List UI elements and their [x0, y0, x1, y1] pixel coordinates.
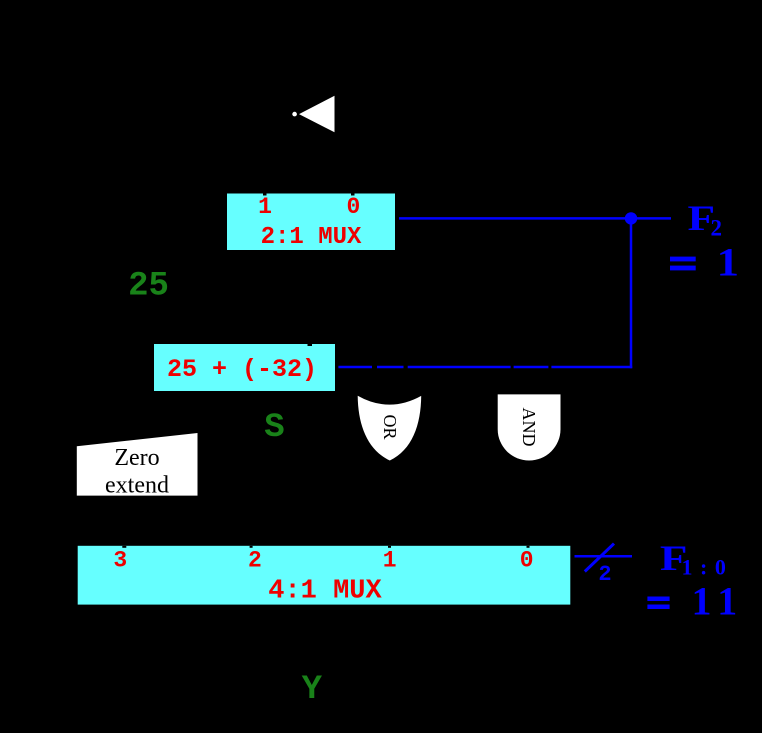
4:1 MUX body [78, 546, 571, 605]
svg-text:0: 0 [520, 548, 534, 574]
wire stub notch on 2:1 MUX top, input 1 [263, 194, 267, 196]
zero extend block [77, 433, 198, 496]
wire stub notch on 2:1 MUX top, input 0 [351, 194, 355, 196]
svg-text:AND: AND [519, 408, 539, 447]
wire: 4:1 MUX output [575, 555, 633, 558]
2:1 MUX body [227, 194, 395, 251]
wire: dashed run from adder box to corner [338, 366, 632, 369]
svg-text:Y: Y [302, 671, 323, 709]
svg-text:extend: extend [105, 472, 169, 498]
wire: junction down to corner [630, 218, 633, 368]
svg-text:2: 2 [248, 548, 262, 574]
bus width slash [585, 544, 614, 572]
svg-text:1: 1 [717, 241, 739, 285]
junction node [625, 212, 637, 224]
svg-text:1:0: 1:0 [682, 555, 734, 580]
svg-text:1: 1 [383, 548, 397, 574]
svg-text:25 + (-32): 25 + (-32) [167, 355, 317, 384]
wire stub notch on 4:1 MUX top, input 3 [122, 546, 126, 548]
svg-text:0: 0 [346, 194, 360, 220]
svg-text:11: 11 [692, 579, 746, 624]
wire stub notch on 4:1 MUX top, input 0 [527, 546, 530, 548]
wire stub notch on 4:1 MUX top, input 2 [250, 546, 253, 548]
wire: 2:1 MUX output to F2 label [399, 217, 671, 220]
wire stub notch on 4:1 MUX top, input 1 [388, 546, 391, 548]
value F1:0 equals sign [647, 597, 669, 602]
svg-text:1: 1 [258, 194, 272, 220]
adder result box 25 + (-32) [154, 344, 335, 391]
OR gate (rotated, pointing down) [358, 396, 422, 461]
svg-text:3: 3 [113, 548, 127, 574]
svg-text:2:1 MUX: 2:1 MUX [261, 224, 362, 251]
AND gate (rotated, pointing down) [498, 394, 561, 460]
svg-text:2: 2 [711, 215, 723, 240]
inverter U1 (NOT gate pointing left) [292, 96, 334, 133]
svg-text:OR: OR [380, 414, 400, 439]
svg-text:2: 2 [598, 562, 611, 587]
svg-text:4:1 MUX: 4:1 MUX [268, 576, 382, 606]
svg-text:25: 25 [128, 268, 169, 306]
value F2 equals sign [670, 257, 696, 262]
svg-text:Zero: Zero [114, 445, 159, 471]
wire stub notch on adder box top [308, 344, 313, 346]
svg-text:S: S [264, 409, 284, 447]
